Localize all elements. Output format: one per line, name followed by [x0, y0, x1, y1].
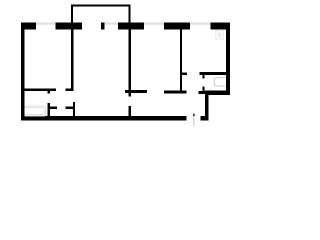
bathroom wall A lower [48, 103, 50, 116]
WC top wall left stub [50, 106, 57, 108]
window W4 [190, 22, 211, 25]
wall C lower stub [129, 106, 131, 116]
window W1 [36, 22, 56, 25]
balcony top wall [71, 4, 131, 6]
top exterior wall segment A [21, 22, 36, 29]
hall wall left segment [125, 90, 147, 93]
right exterior wall [226, 22, 230, 94]
room1 bottom wall right piece [66, 89, 74, 92]
wall2 room3/kitchen [180, 29, 182, 93]
ventilation shaft icon [216, 31, 224, 40]
room1 bottom wall left piece [25, 89, 56, 92]
WC2 top wall [199, 72, 226, 75]
top exterior wall segment F [211, 22, 231, 29]
top exterior wall segment D [118, 22, 144, 29]
top exterior wall stub C [101, 22, 105, 29]
bathtub [25, 106, 46, 116]
left exterior wall [21, 22, 25, 120]
hall wall right segment [164, 90, 186, 93]
WC2 bottom wall [198, 91, 205, 94]
window W2 [105, 22, 118, 25]
bathroom wall A top jamb [48, 91, 50, 94]
top exterior wall segment B [56, 22, 82, 29]
bottom exterior wall right of entrance [200, 116, 208, 121]
WC top wall right stub [65, 106, 73, 108]
step wall horizontal (bottom-right notch) [205, 91, 230, 95]
wall B WC right [73, 102, 75, 116]
balcony right wall [129, 4, 131, 22]
kitchen door jamb [182, 73, 187, 76]
WC2 left wall lower jamb [202, 86, 204, 91]
bottom exterior wall left of entrance [21, 116, 187, 121]
entrance arrow [193, 113, 196, 127]
toilet WC2 [214, 78, 225, 86]
wall C room2/room3 upper [129, 29, 131, 96]
step wall vertical (bottom-right notch) [205, 95, 209, 121]
window W3 [144, 22, 164, 25]
balcony left wall [71, 4, 73, 22]
WC2 left wall upper jamb [202, 75, 204, 79]
interior wall1 room1/room2 [71, 29, 74, 91]
top exterior wall segment E [164, 22, 190, 29]
vent notch [217, 29, 219, 30]
